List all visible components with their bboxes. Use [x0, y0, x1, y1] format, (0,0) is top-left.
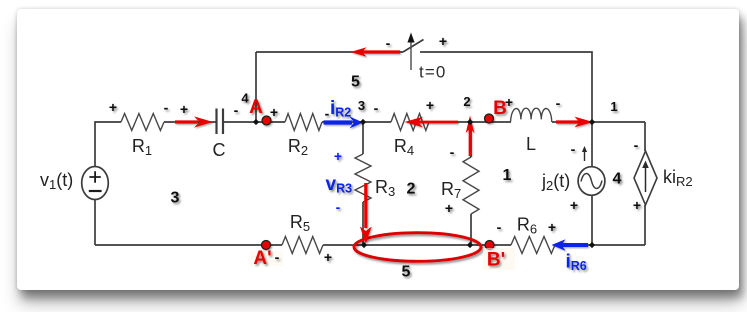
svg-text:R7: R7 — [441, 179, 461, 201]
wire: right branch upper stub to ki diamond — [644, 122, 646, 151]
svg-text:+: + — [180, 101, 188, 117]
svg-text:R1: R1 — [132, 136, 152, 158]
svg-text:A': A' — [253, 248, 271, 269]
junction dot at R7 bottom — [467, 242, 473, 248]
svg-text:B': B' — [487, 250, 505, 271]
svg-text:-: - — [275, 249, 280, 265]
current source j2(t) — [541, 146, 605, 195]
svg-text:-: - — [571, 141, 576, 157]
red current arrow down along R3 to supernode — [360, 183, 372, 244]
wire: top loop left of switch — [256, 51, 403, 53]
wire: R4 to inductor through node 2 and node B — [429, 121, 511, 123]
svg-text:+: + — [439, 33, 447, 49]
svg-text:iR2: iR2 — [330, 98, 351, 120]
wire: R3 branch lower stub — [362, 202, 364, 245]
svg-text:-: - — [374, 100, 379, 116]
red current arrow from R1 to C — [175, 116, 213, 127]
red current arrow on top loop pointing left — [351, 47, 401, 57]
wire: node 1 to right branch corner — [592, 121, 645, 123]
highlight box behind A' label — [250, 251, 283, 266]
junction dot at j2 bottom — [589, 242, 595, 248]
svg-text:C: C — [213, 140, 226, 160]
junction dot at node A — [253, 119, 259, 125]
junction dot at R3 bottom — [361, 242, 367, 248]
wire: bottom rail R6 to right corner — [555, 244, 645, 246]
svg-text:iR6: iR6 — [566, 252, 587, 274]
svg-text:+: + — [548, 219, 556, 235]
svg-text:-: - — [450, 144, 455, 160]
svg-text:v1(t): v1(t) — [40, 170, 73, 192]
red terminal dot B' — [485, 241, 494, 250]
svg-text:1: 1 — [610, 99, 617, 114]
resistor R4 — [391, 114, 429, 159]
capacitor C — [213, 109, 226, 161]
wire: j2 branch lower stub — [591, 195, 593, 246]
svg-text:4: 4 — [241, 91, 249, 106]
resistor R5 — [282, 212, 323, 254]
wire: bottom rail R5 to R6 through supernode — [323, 244, 511, 246]
svg-text:A: A — [249, 97, 263, 118]
svg-text:-: - — [325, 106, 330, 122]
wire: R7 branch lower stub — [470, 214, 472, 245]
junction dot at node 3 — [360, 119, 366, 125]
resistor R1 — [121, 114, 164, 159]
svg-text:+: + — [109, 99, 117, 115]
wire: capacitor to R2 through node A — [224, 121, 285, 123]
svg-text:R3: R3 — [375, 177, 395, 199]
svg-text:2: 2 — [463, 94, 470, 109]
svg-text:t=0: t=0 — [419, 63, 446, 82]
svg-text:2: 2 — [407, 181, 416, 198]
svg-text:-: - — [497, 219, 502, 235]
switch t=0 — [403, 33, 446, 82]
wire: bottom rail left segment to R5 — [95, 244, 282, 246]
wire: R7 branch upper stub — [470, 122, 472, 157]
red terminal dot A' — [262, 241, 271, 250]
svg-text:+: + — [445, 200, 453, 216]
svg-text:L: L — [526, 134, 536, 154]
svg-text:1: 1 — [503, 167, 512, 184]
red current arrow up into node 2 — [466, 116, 475, 157]
resistor R6 — [511, 215, 555, 254]
wire: j2 branch upper stub — [591, 122, 593, 168]
red current arrow through R4 pointing left — [405, 117, 459, 128]
svg-text:+: + — [633, 197, 641, 213]
wire: v1 bottom to bottom rail — [94, 199, 96, 245]
resistor R7 — [441, 157, 479, 214]
wire: left branch from v1 top to R1 — [95, 122, 121, 167]
svg-text:-: - — [234, 102, 239, 118]
svg-text:R6: R6 — [517, 215, 537, 237]
wire: node A riser to top loop — [255, 52, 257, 122]
wire: top loop right of switch down to node 1 — [420, 52, 592, 122]
svg-text:+: + — [270, 104, 278, 120]
svg-text:+: + — [570, 197, 578, 213]
svg-text:j2(t): j2(t) — [541, 171, 570, 193]
highlight box behind B' label — [483, 248, 515, 270]
svg-text:+: + — [334, 148, 342, 164]
svg-text:-: - — [634, 137, 639, 153]
svg-text:-: - — [556, 95, 561, 111]
svg-text:vR3: vR3 — [326, 174, 353, 196]
svg-text:R2: R2 — [288, 136, 308, 158]
red terminal dot B — [485, 114, 494, 123]
red current arrow from L to node 1 — [556, 117, 593, 128]
svg-text:+: + — [426, 97, 434, 113]
wire: node 3 to R4 — [363, 121, 391, 123]
voltage source v1(t) — [40, 167, 108, 200]
inductor L — [511, 108, 552, 154]
blue current arrow i_R6 pointing left — [552, 239, 589, 250]
wire: R1 to capacitor — [164, 121, 216, 123]
red supernode ellipse 5 — [354, 233, 481, 262]
svg-text:5: 5 — [402, 264, 411, 281]
svg-text:+: + — [324, 249, 332, 265]
resistor R3 — [355, 154, 395, 202]
svg-text:3: 3 — [358, 98, 365, 113]
junction dot at node 2 — [467, 119, 473, 125]
resistor R2 — [285, 114, 322, 159]
svg-text:3: 3 — [171, 190, 180, 207]
svg-text:-: - — [336, 199, 341, 215]
svg-text:-: - — [386, 35, 391, 51]
svg-text:R5: R5 — [290, 212, 310, 234]
wire: R3 branch upper stub — [362, 122, 364, 154]
wire: R2 to node 3 — [322, 121, 363, 123]
svg-text:kiR2: kiR2 — [663, 167, 693, 189]
svg-text:+: + — [505, 94, 513, 110]
svg-text:5: 5 — [351, 74, 360, 91]
dependent source ki_R2 — [634, 151, 693, 205]
svg-text:4: 4 — [613, 171, 622, 188]
svg-text:R4: R4 — [394, 136, 414, 158]
svg-text:-: - — [164, 100, 169, 116]
wire: right branch lower stub from ki diamond — [644, 205, 646, 245]
wire: inductor to node 1 — [552, 121, 592, 123]
red terminal dot A — [262, 116, 271, 125]
blue current arrow i_R2 into node 3 — [324, 117, 364, 129]
junction dot at node 1 — [589, 119, 595, 125]
